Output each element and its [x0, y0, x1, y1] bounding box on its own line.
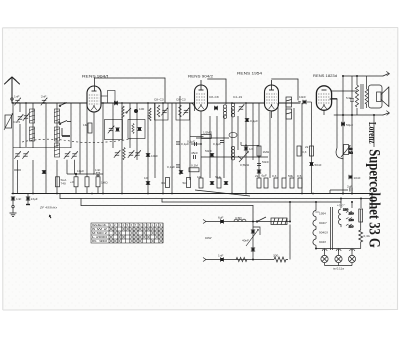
svg-text:3Ω: 3Ω [161, 181, 166, 185]
svg-text:904/f: 904/f [319, 240, 326, 244]
svg-text:1/4: 1/4 [249, 147, 254, 151]
wire y=147.5 [13, 147, 71, 149]
loop coil at 225 [223, 105, 226, 119]
svg-text:13µF: 13µF [31, 197, 38, 201]
svg-text:150: 150 [349, 212, 354, 216]
svg-text:+0: +0 [70, 180, 74, 184]
svg-text:1nF: 1nF [14, 95, 19, 99]
cap 45nF at 194.5,157 [191, 151, 198, 159]
svg-text:kΩ: kΩ [349, 150, 354, 154]
cap 2nF at 351,189 [347, 185, 352, 192]
svg-text:1954: 1954 [319, 212, 326, 216]
wire: speaker lower line y=115 [334, 111, 390, 115]
tube V3 RENS 1954 [265, 80, 279, 111]
band switches [58, 103, 71, 137]
svg-text:10nF: 10nF [151, 154, 158, 158]
osc coil at 123 [122, 106, 124, 118]
svg-text:ZF 455kHz: ZF 455kHz [39, 206, 57, 210]
lower osc coil at 124 [123, 148, 125, 160]
svg-text:45nF: 45nF [191, 151, 198, 155]
speaker frame [369, 85, 383, 108]
bus3 y=202 [162, 199, 341, 203]
verticals dropping from buses [316, 194, 372, 209]
svg-text:0,3: 0,3 [272, 174, 277, 178]
cap 50nF at 313,162 [309, 162, 321, 167]
svg-text:5Ω: 5Ω [183, 181, 188, 185]
resistor 0.1 at 194,170 horizontal [189, 164, 199, 172]
svg-text:0,1µF: 0,1µF [187, 140, 195, 144]
svg-text:0,1µF: 0,1µF [213, 142, 221, 146]
svg-text:0,3: 0,3 [302, 150, 307, 154]
wire y=190 left of cap [330, 189, 348, 191]
svg-text:50k: 50k [288, 174, 293, 178]
svg-text:+(∼)−: +(∼)− [337, 203, 345, 207]
wires into transformer [356, 76, 358, 85]
gang dashed link [22, 139, 131, 143]
antenna trimmer 1nF [14, 95, 21, 106]
resistor at 299,151 [297, 146, 307, 156]
ground symbol [12, 200, 14, 213]
resistor at 76 [70, 177, 78, 187]
cap 0.1uF at 178,166 [167, 165, 180, 169]
wire: HT bus top right y=76 [343, 72, 390, 77]
svg-text:1nF: 1nF [218, 254, 223, 258]
coil box L2c lower [54, 143, 59, 157]
cap 1nF at 98,174 [95, 168, 100, 176]
antenna [5, 77, 20, 103]
oval link at 233,135 [229, 132, 237, 137]
svg-text:10nF: 10nF [354, 176, 361, 180]
svg-text:2k: 2k [255, 174, 259, 178]
svg-text:1MΩ: 1MΩ [101, 181, 108, 185]
pot arrow 40nF [246, 229, 259, 246]
svg-text:10: 10 [197, 175, 201, 179]
junction dots on buses [12, 102, 314, 194]
tube V1 RENS 904/f [87, 86, 101, 112]
tube V2 RENS 904/2 [195, 80, 208, 111]
filter box B [128, 120, 145, 139]
svg-text:1M: 1M [83, 123, 88, 127]
round cap at 136,111 [134, 109, 138, 113]
lamp 2 [335, 249, 342, 263]
grid shield box at 111,96 [101, 91, 115, 104]
fuse [359, 209, 363, 222]
heater labels [319, 212, 328, 245]
coil box L2b [54, 127, 59, 141]
mains plug symbols [0, 0, 1, 1]
vertical x=20 short [19, 103, 21, 112]
loop coil at 233 [231, 103, 234, 117]
svg-text:ta 0,11a: ta 0,11a [333, 267, 344, 271]
svg-text:110: 110 [349, 225, 354, 229]
cap at 253,231 [251, 230, 255, 233]
switch at 260,221.5 [256, 217, 266, 222]
svg-text:50nF: 50nF [262, 160, 269, 164]
tube stems [94, 110, 324, 118]
bottom resistor row right [255, 174, 302, 188]
svg-text:0,1µF: 0,1µF [250, 119, 258, 123]
output transformer and speaker [332, 76, 389, 148]
ground bus y=193.5 [12, 193, 372, 195]
bus4 y=205.5 [81, 199, 253, 222]
anode wire tube4 to transformer [332, 90, 358, 92]
cap 1nF at 222,259.5 [218, 254, 224, 262]
wire to lamps [316, 244, 361, 249]
coil box horizontal at 276,221 [271, 218, 287, 225]
interstage coil boxes [286, 97, 292, 119]
svg-text:RENS 904/2: RENS 904/2 [188, 75, 213, 79]
svg-text:3,5: 3,5 [147, 114, 151, 119]
transformer core [360, 84, 362, 109]
varcap at 26,117 [23, 113, 30, 121]
vertical x=290 bottom [289, 202, 291, 222]
svg-text:RENS 1954: RENS 1954 [237, 72, 262, 76]
junction cap 10uF at 76,174 [75, 173, 77, 175]
vertical x=44 [45, 103, 47, 194]
svg-text:C≈: C≈ [316, 210, 320, 214]
coil box L1a [29, 109, 34, 123]
secondary winding [365, 89, 368, 104]
bcap 50nF at 212,155 [205, 149, 214, 157]
resistor at 98 [96, 177, 108, 187]
bcap junction 247,120 [245, 118, 258, 123]
lamp 1 [321, 249, 328, 263]
svg-text:100: 100 [139, 107, 144, 111]
svg-text:50nF: 50nF [205, 149, 212, 153]
junction dots bottom [252, 193, 373, 261]
vertical x=26 [25, 103, 27, 147]
svg-text:0,5: 0,5 [297, 174, 302, 178]
svg-text:2k: 2k [305, 145, 309, 149]
svg-text:2nF: 2nF [347, 185, 352, 189]
svg-text:1nF: 1nF [95, 168, 100, 172]
primary winding bumps [338, 209, 341, 227]
coil box L2a [54, 109, 59, 123]
junction dots right [342, 75, 375, 195]
pointer blob [49, 215, 52, 219]
cap 2nF on bus [41, 95, 48, 106]
cap 13uF at 28,198 [26, 197, 38, 201]
svg-text:0,3A: 0,3A [364, 234, 371, 238]
cap at 222,141 [213, 140, 224, 146]
svg-text:60W: 60W [205, 236, 212, 240]
resistor at 87 [85, 177, 89, 187]
vertical x=70 [70, 103, 72, 148]
resistor row left: SLA740 [56, 177, 68, 187]
switch at 128,110 [126, 108, 131, 113]
svg-text:2nF: 2nF [41, 95, 46, 99]
svg-text:C8–C3: C8–C3 [154, 98, 164, 102]
vertical x=33 [32, 103, 34, 148]
tube V4 RENS 1823d [316, 86, 331, 111]
right vertical x=343 [342, 76, 344, 194]
varcap row y=154 mid [114, 150, 141, 158]
loop coil at 233 lower [231, 146, 234, 160]
hook arc near tube2 [191, 103, 195, 111]
svg-text:Ca.5: Ca.5 [14, 120, 21, 124]
svg-text:300: 300 [273, 254, 278, 258]
resistor zigzag at 241,259.5 [236, 257, 247, 261]
AVC line y=157 [201, 156, 268, 158]
svg-text:50µF: 50µF [346, 123, 353, 127]
wire y=145.3 with cap [241, 142, 259, 145]
lamp feed coils [322, 250, 354, 251]
line y=138 [196, 137, 229, 139]
svg-text:904/2f: 904/2f [319, 231, 328, 235]
center vertical x=253 with caps [252, 222, 254, 260]
svg-text:C4–19: C4–19 [233, 95, 242, 99]
svg-text:Lorenz: Lorenz [366, 122, 378, 144]
cap 50uF at 343,124 [341, 122, 353, 127]
varcap at 20,118 [17, 114, 24, 122]
grid cap 0.1uF at 195.5,144 [191, 143, 201, 145]
bandfilter box 2 [176, 103, 190, 120]
right vertical x=374 [373, 115, 375, 147]
cap 6uF at 222,221.5 [218, 216, 224, 224]
vertical x=65 [79, 103, 81, 174]
svg-text:K 30: K 30 [92, 239, 108, 243]
resistor 47k at 258,151 [257, 146, 270, 156]
svg-text:1MΩ: 1MΩ [263, 150, 270, 154]
transformer core [331, 207, 333, 250]
svg-text:50nF: 50nF [315, 163, 322, 167]
svg-text:0,5MΩ: 0,5MΩ [240, 163, 250, 167]
svg-text:6µF: 6µF [218, 216, 224, 220]
bcap at 181,171 [179, 170, 183, 173]
volume pot at 346,150 [336, 145, 354, 160]
svg-text:RENS 904/f: RENS 904/f [82, 75, 108, 79]
wire 298 to cap [298, 101, 301, 102]
bottom wire y=259.5 [203, 258, 274, 262]
switch bracket top [253, 227, 260, 235]
cap 10nF at 148,155 [146, 153, 158, 158]
svg-text:904/7: 904/7 [319, 221, 327, 225]
speaker cone [381, 87, 389, 107]
svg-text:0,1µF: 0,1µF [167, 165, 175, 169]
wave-range table [91, 223, 163, 243]
right vertical x=352 [351, 115, 353, 194]
cap at 253,249 [251, 248, 255, 251]
svg-text:3,5H: 3,5H [235, 216, 242, 220]
cap 0.1uF at 178,143 [176, 142, 189, 146]
resistor 1MOhm at 90,128 [83, 123, 92, 133]
bottom resistor row left-mid [144, 176, 191, 188]
lower left wires [14, 160, 57, 194]
bus2 y=198.5 [60, 194, 372, 199]
lamp 3 [348, 249, 355, 263]
wire: top feedback y=78 [95, 78, 299, 104]
vertical x=13 [12, 103, 14, 194]
heater winding chain [313, 208, 316, 249]
5nF cap at 352,100 [351, 76, 353, 115]
svg-text:10: 10 [144, 176, 148, 180]
varcap row y=153 [14, 151, 78, 159]
svg-text:10µF: 10µF [77, 169, 84, 173]
bandfilter box 1 [155, 103, 169, 120]
cap 10nF at 350,177 [349, 175, 361, 180]
svg-text:RENS 1823d: RENS 1823d [313, 74, 337, 78]
speaker magnet [377, 92, 382, 102]
caps mid right [257, 160, 269, 166]
svg-text:740: 740 [61, 182, 66, 186]
cap at 46,172 [42, 170, 46, 173]
resistor zigzag at 281,259.5 [274, 257, 288, 262]
filter box A [105, 120, 123, 140]
svg-text:10nF: 10nF [299, 95, 306, 99]
svg-text:C8–C3: C8–C3 [176, 98, 186, 102]
svg-text:1nF: 1nF [16, 197, 21, 201]
anode load 1/2M [190, 136, 204, 138]
screen wire tube4 [332, 98, 338, 100]
vertical x=57 [56, 103, 58, 148]
transformer primary winding [355, 85, 358, 107]
varcap 241,108 [238, 104, 245, 112]
svg-text:SLA: SLA [215, 175, 222, 179]
cap 1nF at 13,198 [11, 197, 22, 201]
mains selector taps [343, 208, 354, 229]
tube labels [82, 72, 337, 79]
svg-text:5nF: 5nF [346, 96, 351, 100]
svg-text:1/2MΩ: 1/2MΩ [203, 131, 213, 135]
resistor at 311,151 [305, 145, 314, 156]
svg-text:C8–C8: C8–C8 [209, 95, 219, 99]
band switch Ca.5 [4, 113, 13, 130]
top wire y=221.5 [203, 220, 290, 224]
zigzag resistor right [359, 230, 363, 244]
series cap on bus at 116 [114, 101, 117, 105]
cap 10nF at 304,102 [303, 100, 306, 104]
svg-text:0,1M: 0,1M [191, 164, 198, 168]
svg-text:130: 130 [349, 218, 354, 222]
slim choke at 150 [149, 108, 151, 121]
volume pot 0.5M [238, 151, 249, 162]
svg-text:6µF: 6µF [262, 174, 268, 178]
wire: grid bus y=103 [12, 99, 337, 103]
lamp bottom wire [325, 263, 353, 266]
coil box L1b [29, 127, 34, 141]
main ink group [5, 72, 390, 222]
bottom resistor row tube2 [197, 175, 228, 188]
osc coupling: bcap at 216,107 [214, 106, 217, 110]
svg-text:40nF: 40nF [242, 239, 249, 243]
diagonal wire lower left [195, 190, 250, 196]
choke bumps at 240,221.5 [234, 216, 246, 222]
